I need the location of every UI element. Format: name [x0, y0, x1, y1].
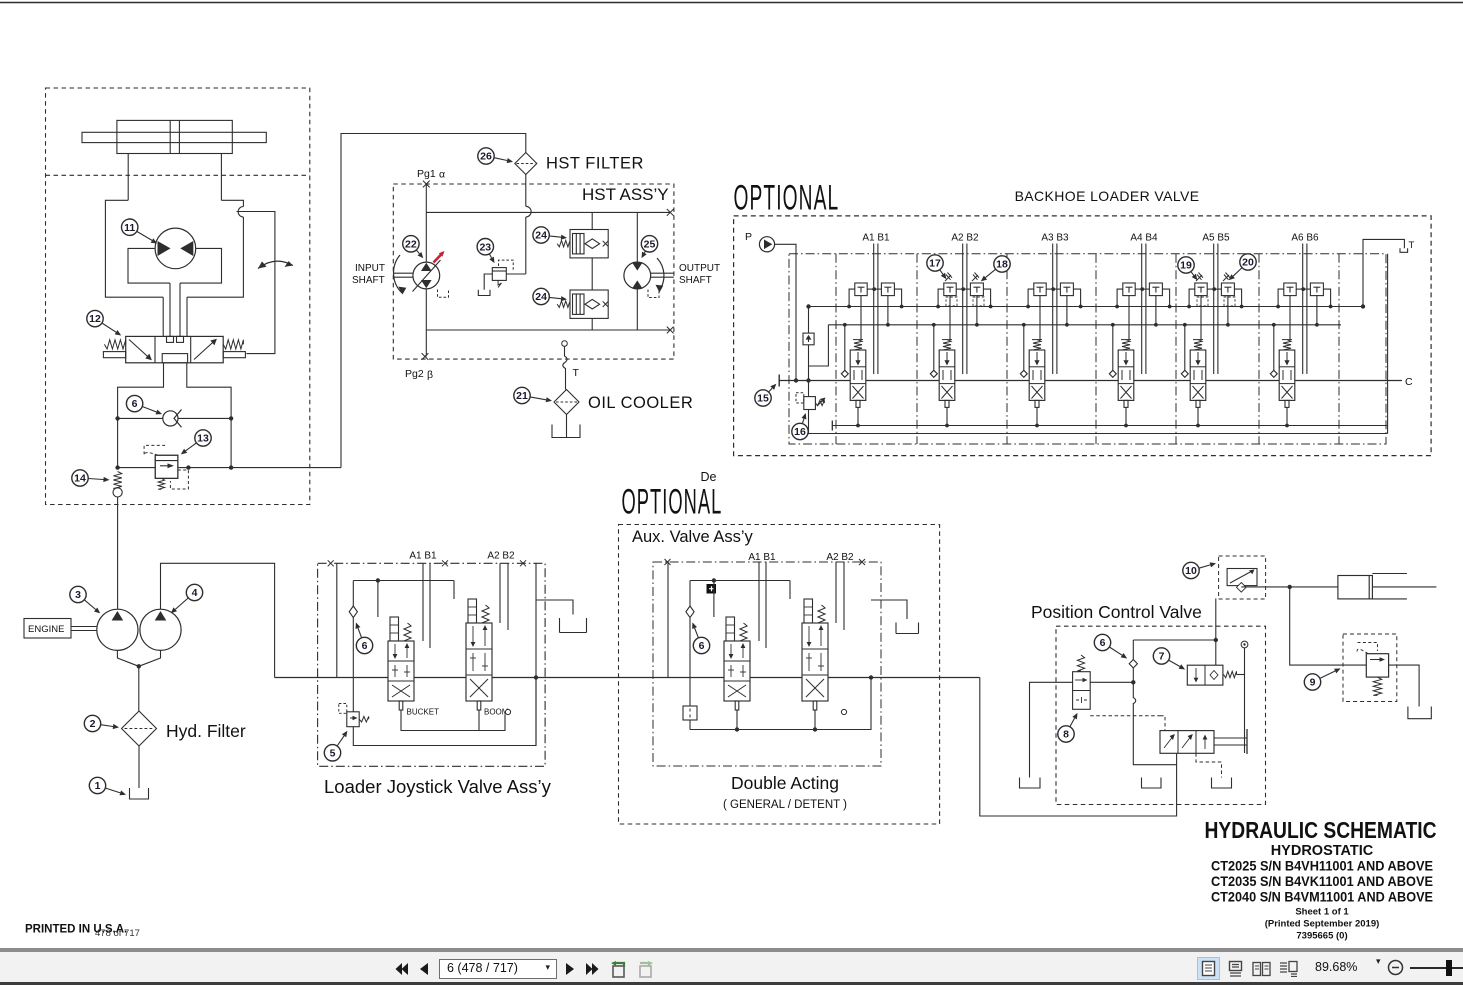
tandem pump P2 (item 4)	[140, 609, 181, 650]
wire: check up to supply	[1133, 639, 1216, 641]
centre tank	[1142, 778, 1162, 789]
callout 23	[489, 254, 491, 258]
svg-text:P: P	[745, 231, 752, 243]
callout 14	[88, 479, 103, 480]
valve 12 springs	[104, 340, 125, 349]
svg-text:A4 B4: A4 B4	[1130, 233, 1158, 244]
valve 8 tank drop	[1030, 682, 1073, 777]
section divider	[835, 254, 837, 444]
loader relief (item 5)	[347, 712, 359, 727]
callout 22	[416, 250, 419, 254]
HST motor (item 25)	[624, 262, 651, 289]
aux pilot box	[683, 706, 697, 720]
tee to tank T	[1363, 239, 1404, 306]
svg-text:11: 11	[124, 222, 135, 234]
aux dashed enclosure	[619, 525, 940, 825]
callout 5	[337, 736, 344, 746]
position supply drop from flow control	[1215, 598, 1217, 665]
svg-text:21: 21	[516, 390, 528, 402]
dashed divider inside motor assembly	[46, 174, 310, 176]
svg-text:SHAFT: SHAFT	[679, 275, 712, 286]
nav prev icon	[417, 961, 431, 977]
svg-text:10: 10	[1185, 565, 1197, 577]
svg-text:24: 24	[535, 291, 547, 303]
steering cylinder	[1338, 576, 1373, 599]
zoom slider	[1410, 967, 1463, 969]
backhoe valve body dash-dot boundary	[789, 254, 1386, 444]
svg-text:5: 5	[330, 747, 336, 759]
valve 12 left cell arrow	[129, 340, 151, 360]
callout 18	[985, 269, 995, 277]
view mode buttons	[1197, 957, 1220, 980]
cooler to tank	[566, 415, 568, 438]
spool valve AUX1	[726, 617, 735, 641]
gauge port X marks	[423, 181, 430, 188]
position drain drop	[1150, 765, 1152, 778]
wires: valve 12 to charge gallery	[118, 363, 164, 468]
dashed enclosure: drive motor assembly	[46, 88, 310, 505]
pump 22 rotation arc	[394, 255, 402, 293]
backhoe section A1 B1	[841, 244, 903, 428]
svg-text:T: T	[1409, 240, 1415, 251]
wire: valve 23 to filter drop	[506, 273, 526, 275]
svg-text:13: 13	[197, 433, 209, 445]
svg-text:SHAFT: SHAFT	[352, 275, 385, 286]
svg-text:6: 6	[699, 640, 705, 652]
axle / wheel assembly	[117, 120, 232, 153]
svg-text:Position Control Valve: Position Control Valve	[1031, 602, 1202, 622]
port relief marks	[945, 273, 952, 282]
svg-text:BUCKET: BUCKET	[407, 708, 440, 717]
HST pump (item 22)	[413, 262, 440, 289]
check valve circle	[163, 411, 178, 426]
callout 26	[494, 158, 507, 161]
A/B port drops boom	[499, 563, 501, 623]
svg-text:24: 24	[535, 230, 547, 242]
svg-text:HYDROSTATIC: HYDROSTATIC	[1271, 843, 1374, 859]
callout 21	[530, 397, 546, 400]
aux A/B drops	[758, 562, 760, 641]
pilot dash from spool to tank	[1196, 753, 1222, 777]
svg-text:23: 23	[479, 241, 491, 253]
backhoe section A5 B5	[1181, 244, 1243, 428]
inlet relief (item 16)	[808, 381, 810, 397]
svg-text:A5 B5: A5 B5	[1202, 233, 1230, 244]
svg-text:( GENERAL / DETENT ): ( GENERAL / DETENT )	[723, 799, 847, 811]
case drain port + wavy to oil cooler	[562, 341, 568, 347]
position main spool (lower)	[1133, 682, 1176, 764]
aux bottom wiring	[690, 678, 871, 730]
spool valve BOOM	[468, 599, 477, 623]
history fwd icon (disabled)	[636, 960, 655, 979]
svg-text:3: 3	[75, 589, 81, 601]
inlet check to gallery	[803, 333, 814, 345]
callout 25	[644, 251, 645, 253]
svg-text:Double Acting: Double Acting	[731, 773, 839, 793]
svg-text:Aux. Valve Ass’y: Aux. Valve Ass’y	[632, 528, 753, 546]
swash angle double arrow	[258, 261, 293, 268]
svg-text:7: 7	[1159, 651, 1165, 663]
valve 12 centre cell ports	[167, 336, 174, 342]
small tank right of loader box	[560, 615, 587, 633]
A/B port drops bucket	[422, 563, 424, 641]
svg-text:Loader Joystick Valve Ass’y: Loader Joystick Valve Ass’y	[324, 776, 552, 797]
svg-text:1: 1	[95, 780, 101, 792]
svg-text:A3 B3: A3 B3	[1041, 233, 1069, 244]
wire: main line to position control	[980, 678, 1177, 817]
loader bottom return wiring	[353, 678, 536, 746]
tandem pump P1 (item 3)	[97, 609, 138, 650]
section divider	[1175, 254, 1177, 444]
callout 2	[101, 725, 114, 727]
callout 1	[105, 788, 120, 793]
callout 6 (aux)	[695, 628, 699, 638]
history back icon	[609, 960, 628, 979]
HST filter diamond (item 26)	[515, 153, 537, 175]
aux internal wiring	[667, 562, 669, 678]
motor 25 rotation arcs	[657, 258, 664, 291]
svg-text:CT2035 S/N B4VK11001 AND ABOVE: CT2035 S/N B4VK11001 AND ABOVE	[1211, 874, 1433, 889]
check valve (item 6) line	[118, 417, 232, 419]
main pressure line across sheet	[275, 677, 980, 679]
wire: charge gallery up to HST filter	[341, 134, 526, 468]
HST loop top line	[426, 211, 670, 213]
svg-text:Sheet 1 of 1: Sheet 1 of 1	[1295, 907, 1349, 918]
wire: junction down to relief 9	[1290, 587, 1367, 665]
zoom percent	[1315, 960, 1357, 974]
relief 13 body redraw (covers gallery line)	[155, 455, 178, 478]
svg-text:A2 B2: A2 B2	[487, 551, 515, 562]
svg-text:478 of 717: 478 of 717	[95, 928, 140, 939]
nav first-page icon	[394, 961, 410, 977]
svg-text:22: 22	[405, 238, 417, 250]
page top edge line	[0, 2, 1463, 4]
hydrostatic motor U (item 11)	[155, 228, 196, 269]
svg-text:6: 6	[1100, 637, 1106, 649]
svg-text:12: 12	[89, 313, 101, 325]
zoom out circle	[1387, 959, 1404, 976]
multi-function valve (item 24)	[570, 230, 608, 258]
callout 6 (charge check)	[142, 407, 156, 413]
section divider	[1006, 254, 1008, 444]
output shaft lines	[651, 272, 674, 274]
svg-text:CT2025 S/N B4VH11001 AND ABOVE: CT2025 S/N B4VH11001 AND ABOVE	[1211, 859, 1433, 874]
svg-text:26: 26	[480, 151, 492, 163]
filter to tank (item 1)	[138, 746, 140, 788]
pump vertical	[425, 184, 427, 262]
svg-text:4: 4	[192, 587, 198, 599]
section divider	[1258, 254, 1260, 444]
svg-text:OPTIONAL: OPTIONAL	[734, 177, 840, 217]
valve 12 right cell arrow	[194, 340, 216, 360]
svg-text:C: C	[1405, 376, 1413, 388]
loader internal pilot wiring	[336, 563, 338, 677]
callout 4	[175, 598, 188, 610]
charge relief valve (item 13)	[155, 455, 178, 478]
valve 12 pilot side bars	[103, 352, 125, 358]
servo control valve (item 12)	[126, 336, 224, 362]
backhoe section A3 B3	[1020, 244, 1082, 428]
callout 9	[1320, 671, 1335, 678]
svg-text:A1 B1: A1 B1	[862, 233, 890, 244]
callout 3	[84, 600, 95, 610]
section divider	[1095, 254, 1097, 444]
svg-text:A6 B6: A6 B6	[1291, 233, 1319, 244]
callout 24	[549, 297, 561, 298]
svg-text:16: 16	[794, 426, 806, 438]
svg-text:14: 14	[74, 473, 86, 485]
svg-text:25: 25	[644, 238, 656, 250]
relief 9 outlet to tank	[1389, 665, 1420, 706]
aux check diamond (item 6)	[686, 606, 694, 618]
input shaft lines	[393, 272, 413, 274]
svg-text:Pg1: Pg1	[417, 168, 436, 180]
port relief marks	[1196, 273, 1203, 282]
HST loop bottom line	[426, 329, 670, 331]
backhoe dashed enclosure	[734, 216, 1432, 456]
cylinder supply line	[1241, 586, 1338, 588]
callout 20	[1233, 268, 1242, 277]
valve 23 drain to tank	[484, 274, 492, 290]
callout 10	[1199, 565, 1210, 568]
svg-text:BACKHOE LOADER VALVE: BACKHOE LOADER VALVE	[1015, 188, 1200, 204]
backhoe section A2 B2	[930, 244, 992, 428]
svg-text:HST ASS’Y: HST ASS’Y	[582, 185, 669, 204]
callout 6 (position)	[1109, 647, 1122, 655]
callout 12	[102, 323, 116, 332]
wire: P to inlet	[775, 244, 796, 380]
svg-text:19: 19	[1180, 260, 1192, 272]
wire hop on outer loop	[238, 207, 243, 218]
spool valve AUX2	[804, 599, 813, 623]
page dropdown	[439, 959, 557, 979]
callout 11	[137, 231, 152, 240]
pump 22 drain dashes	[438, 290, 449, 298]
shuttle line through valves 24	[591, 212, 593, 330]
flow control dashed box (item 10)	[1219, 556, 1266, 599]
svg-text:A2 B2: A2 B2	[951, 233, 979, 244]
svg-text:15: 15	[757, 393, 769, 405]
svg-text:18: 18	[996, 259, 1008, 271]
anticavitation check (item 6)	[349, 606, 357, 618]
pump 22 red setting arrow	[434, 253, 444, 263]
callout 24	[549, 236, 561, 237]
svg-text:8: 8	[1063, 729, 1069, 741]
aux selection marker	[707, 584, 717, 594]
wire valve8 to check	[1090, 681, 1133, 683]
oil cooler diamond (item 21)	[554, 390, 579, 415]
HST motor vertical	[636, 212, 638, 262]
svg-text:ENGINE: ENGINE	[28, 624, 64, 635]
backhoe section A6 B6	[1270, 244, 1332, 428]
svg-text:A1 B1: A1 B1	[748, 552, 776, 563]
ENGINE box	[24, 619, 71, 639]
wire: filter down into HST assy	[525, 175, 527, 275]
svg-text:OIL COOLER: OIL COOLER	[588, 394, 693, 412]
svg-text:7395665 (0): 7395665 (0)	[1296, 931, 1347, 942]
charge gallery bottom line	[118, 467, 341, 469]
callout 6 (loader)	[358, 628, 362, 638]
wires: loop to control valve	[162, 297, 164, 336]
svg-text:(Printed September 2019): (Printed September 2019)	[1265, 919, 1380, 930]
motor inner loop	[128, 248, 222, 283]
svg-text:CT2040 S/N B4VM11001 AND ABOVE: CT2040 S/N B4VM11001 AND ABOVE	[1211, 890, 1433, 905]
callout 19	[1191, 272, 1194, 276]
aux inner dash-dot boundary	[653, 562, 881, 766]
svg-text:HYDRAULIC SCHEMATIC: HYDRAULIC SCHEMATIC	[1205, 817, 1437, 843]
bypass orifice valve (item 14)	[113, 472, 121, 489]
svg-text:OPTIONAL: OPTIONAL	[622, 482, 723, 521]
callout 15	[769, 388, 773, 392]
tank symbol	[130, 788, 149, 799]
svg-text:6: 6	[132, 398, 138, 410]
backhoe section A4 B4	[1109, 244, 1171, 428]
svg-text:α: α	[439, 169, 445, 181]
svg-text:HST FILTER: HST FILTER	[546, 155, 644, 173]
dashed tank	[1212, 778, 1232, 789]
spool actuator rod	[1214, 737, 1247, 739]
pump suction join	[117, 650, 160, 666]
svg-text:17: 17	[929, 258, 941, 270]
spool valve BUCKET	[390, 617, 399, 641]
HST assembly dashed enclosure	[393, 184, 674, 359]
loader joystick dash-dot enclosure	[318, 563, 545, 766]
svg-text:T: T	[573, 367, 580, 379]
motor 25 drain dashes	[648, 290, 659, 298]
svg-text:A2 B2: A2 B2	[826, 552, 854, 563]
charge relief valve (item 23)	[492, 268, 506, 281]
pilot signal vertical	[1241, 641, 1248, 648]
svg-text:OUTPUT: OUTPUT	[679, 263, 720, 274]
aux tank port	[871, 600, 907, 619]
position valve dashed enclosure	[1056, 626, 1266, 804]
svg-text:Pg2: Pg2	[405, 368, 424, 380]
relief 13 pilot dashes	[144, 445, 166, 455]
unloader valve (item 8)	[1077, 655, 1084, 671]
svg-text:β: β	[427, 369, 433, 381]
relief valve (item 9) dashed box	[1343, 634, 1397, 702]
section divider	[916, 254, 918, 444]
swash-plate control wire	[237, 212, 275, 354]
pilot dashes to valve 8	[1090, 715, 1160, 717]
svg-text:6: 6	[362, 640, 368, 652]
loader tank port line	[536, 600, 573, 615]
svg-text:Hyd. Filter: Hyd. Filter	[166, 721, 246, 741]
callout 17	[940, 270, 943, 275]
check valve (item 6 pos)	[1129, 660, 1137, 669]
pilot valve (item 7)	[1187, 665, 1223, 685]
wire: axle to motor loop	[127, 154, 129, 201]
svg-text:INPUT: INPUT	[355, 263, 385, 274]
backhoe main gallery lines	[779, 380, 1402, 382]
nav last icon	[584, 961, 600, 977]
svg-text:9: 9	[1310, 677, 1316, 689]
svg-text:2: 2	[90, 718, 96, 730]
nav next icon	[563, 961, 577, 977]
callout 13	[186, 443, 197, 451]
motor outer loop	[105, 200, 243, 297]
hydraulic filter (item 2)	[122, 711, 157, 746]
svg-text:20: 20	[1242, 257, 1254, 269]
callout 16	[802, 419, 804, 424]
svg-text:A1 B1: A1 B1	[409, 551, 437, 562]
pump 2 discharge to loader valve	[161, 563, 275, 677]
section divider	[1338, 254, 1340, 444]
multi-function valve (item 24)	[570, 290, 608, 318]
callout 7	[1169, 660, 1180, 666]
callout 8	[1070, 718, 1075, 727]
